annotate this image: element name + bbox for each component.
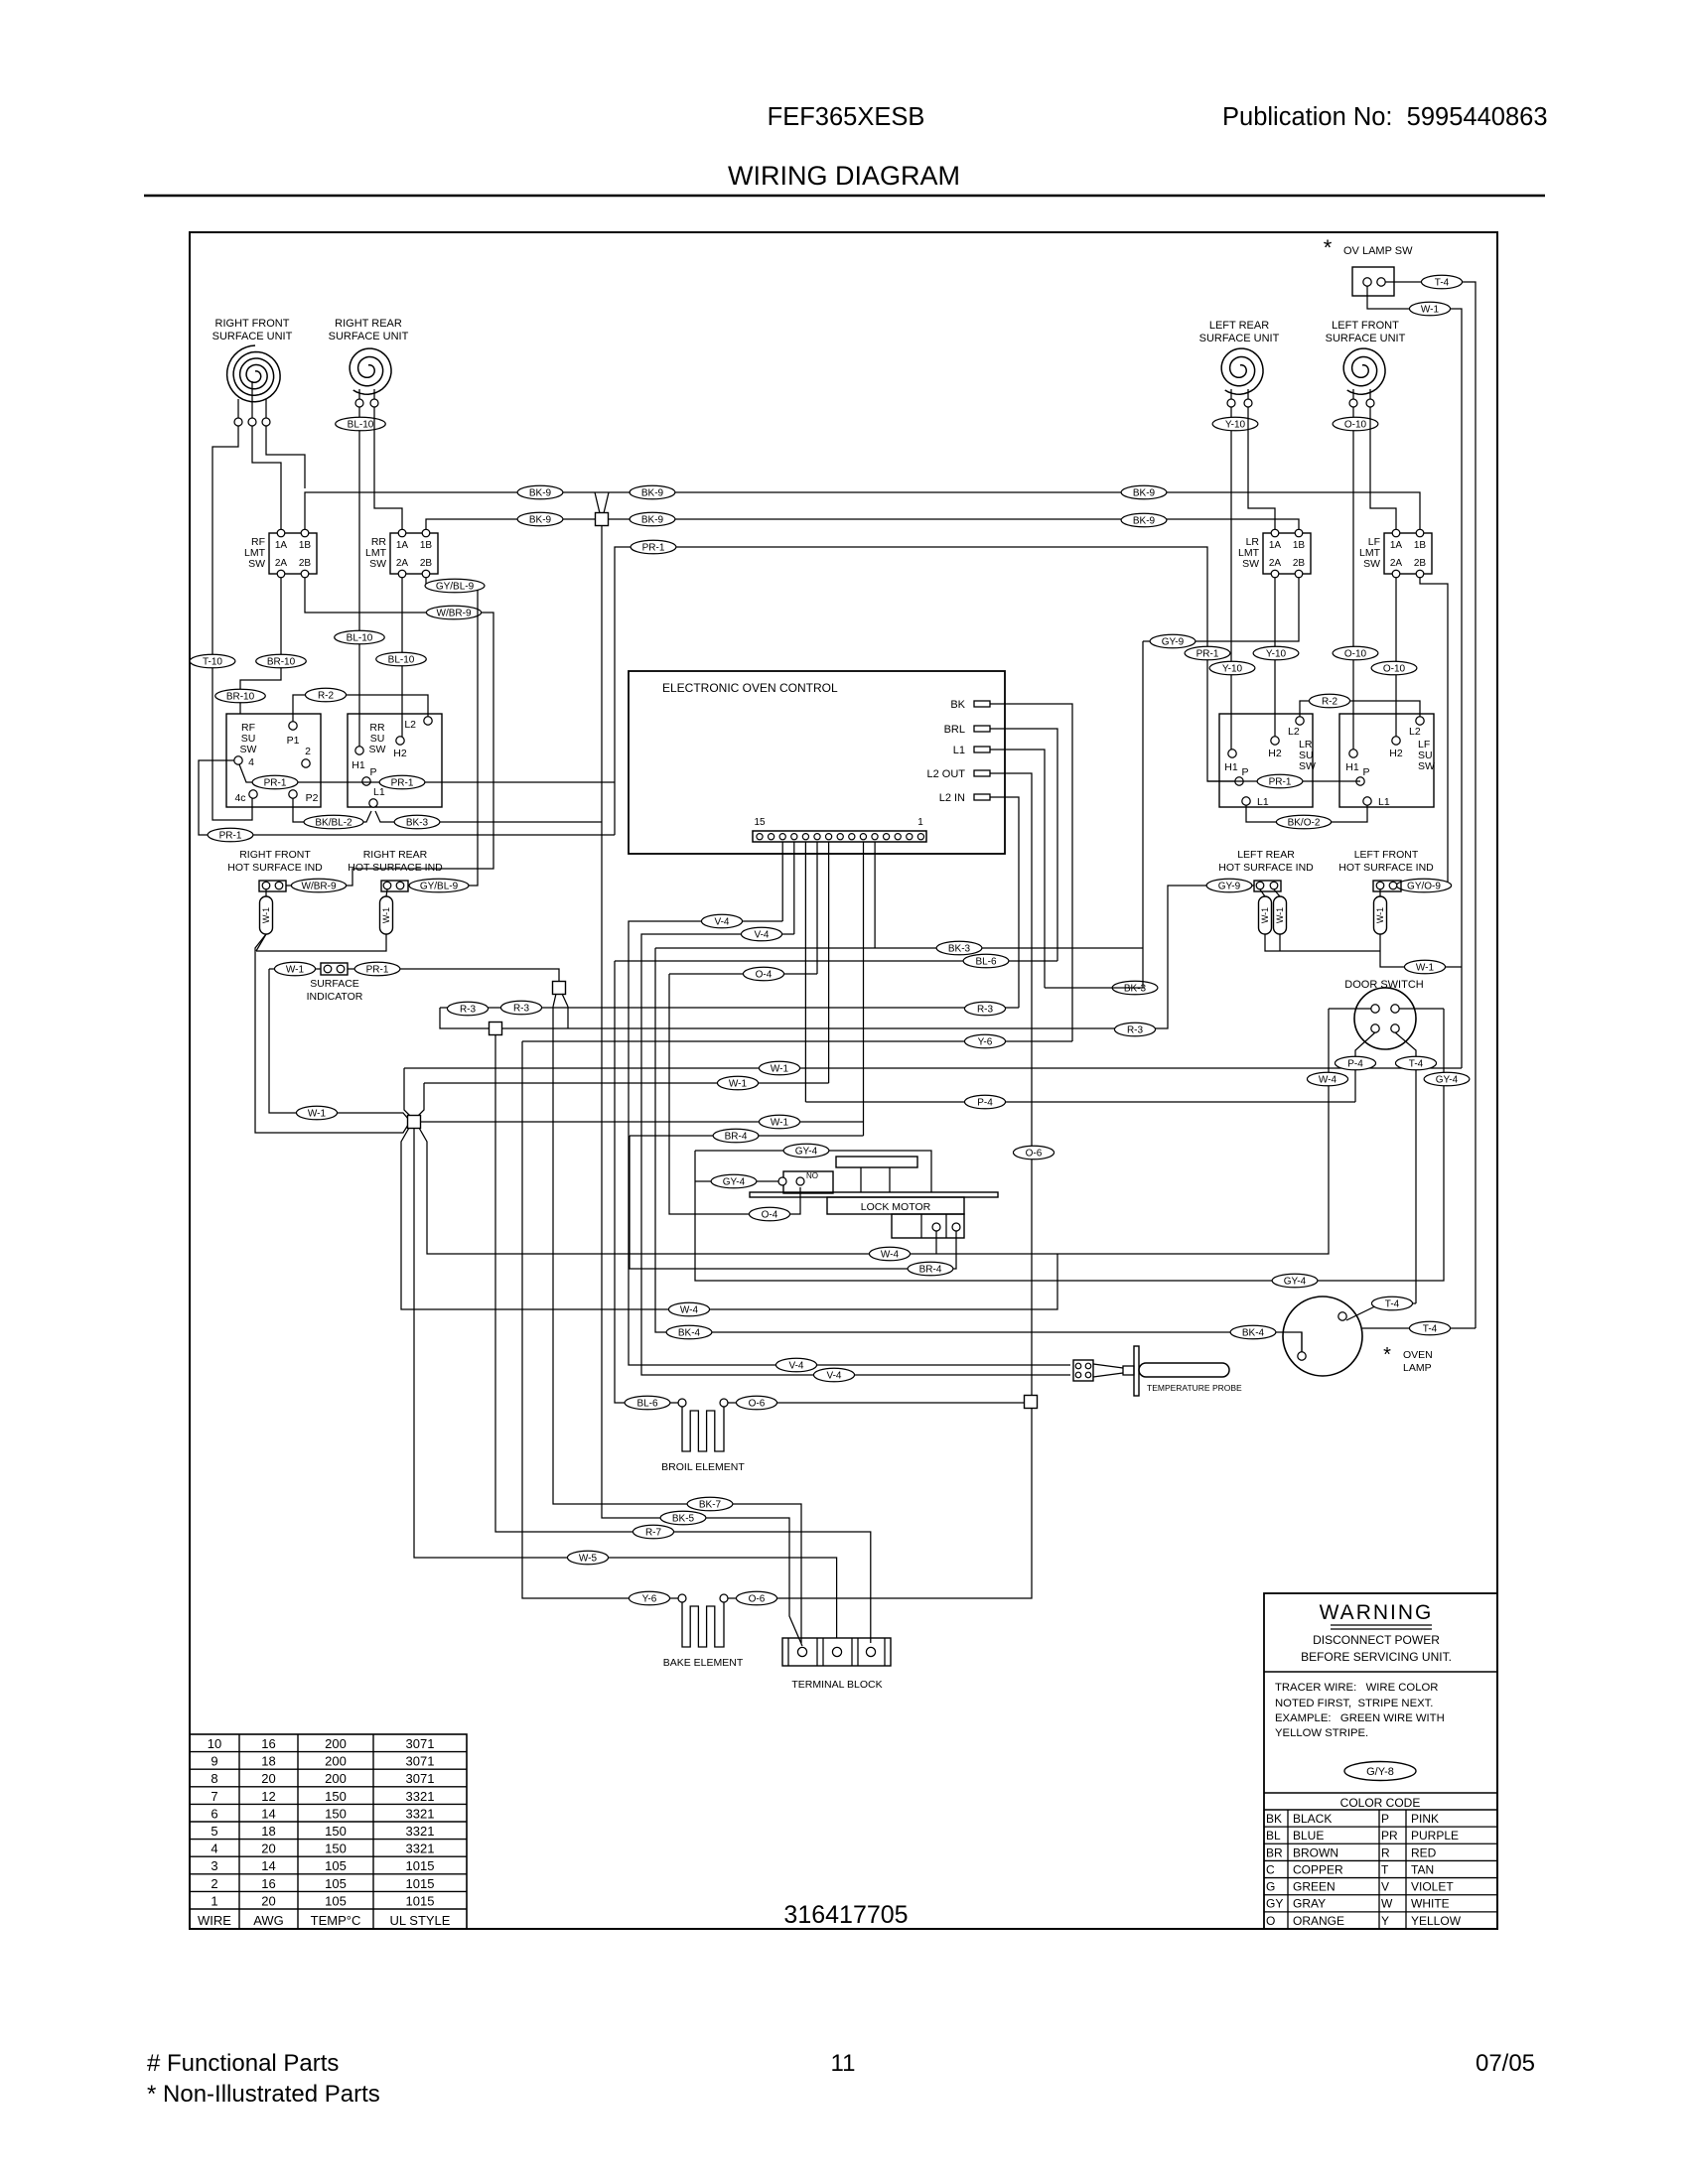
svg-text:BK-7: BK-7 (699, 1500, 722, 1511)
svg-text:LAMP: LAMP (1403, 1362, 1432, 1374)
svg-text:O-10: O-10 (1383, 664, 1406, 675)
wire from EOC connector pin x=788 (781, 842, 783, 921)
wire label Y-10 (1212, 417, 1258, 431)
date code (1476, 2050, 1535, 2077)
svg-text:AWG: AWG (253, 1913, 284, 1928)
svg-text:BK-9: BK-9 (529, 488, 552, 499)
svg-text:*: * (1324, 235, 1333, 260)
wire label W-1 (717, 1076, 758, 1090)
svg-text:INDICATOR: INDICATOR (307, 991, 363, 1003)
wire label BK-9 (630, 512, 675, 526)
wire BK-5 from BK-9 junction to terminal block (602, 526, 802, 1646)
svg-text:W-4: W-4 (680, 1305, 699, 1316)
LF surface switch box (1339, 714, 1435, 808)
svg-text:W-1: W-1 (1375, 907, 1385, 923)
svg-text:W-1: W-1 (1416, 963, 1435, 974)
wire PR-1 from pin 4 to P pins (239, 764, 615, 782)
wire label BK/BL-2 (304, 815, 363, 829)
wire W-1 capsule RF indicator (265, 889, 267, 896)
svg-text:V-4: V-4 (788, 1361, 803, 1372)
wire from RF capsule crossing to riser (255, 934, 408, 1133)
svg-text:L1: L1 (373, 786, 385, 798)
wire label GY-9 (1150, 634, 1196, 648)
wire label Y-6 (964, 1034, 1005, 1048)
wire leg from big junction to W-4 lock bus (419, 1009, 1329, 1254)
wire label O-6 (736, 1396, 776, 1410)
electronic oven control box (629, 671, 1005, 854)
svg-text:1A: 1A (1390, 540, 1403, 551)
wire label O-4 (743, 967, 783, 981)
wire label BK-9 (517, 512, 563, 526)
svg-text:5: 5 (211, 1824, 217, 1839)
svg-text:BR-10: BR-10 (267, 657, 296, 668)
wire W-1 capsules LR indicator (1260, 889, 1280, 896)
svg-text:7: 7 (211, 1789, 217, 1804)
svg-text:SURFACE: SURFACE (310, 978, 359, 990)
wire from BK pad to Y-6 bus (990, 704, 1072, 1041)
wire BK-9 bus upper (305, 492, 1420, 529)
svg-text:14: 14 (261, 1858, 275, 1873)
wire label T-4 (1409, 1321, 1450, 1335)
svg-text:P1: P1 (287, 735, 300, 747)
wire O-4 horizontal (669, 973, 817, 975)
svg-text:NOTED FIRST, STRIPE NEXT.: NOTED FIRST, STRIPE NEXT. (1275, 1698, 1433, 1709)
wire LR LMT 2A to H2 (Y-10) (1274, 578, 1276, 737)
svg-text:W-1: W-1 (1421, 305, 1440, 316)
svg-text:150: 150 (325, 1824, 347, 1839)
right rear hot surface indicator (348, 849, 443, 891)
svg-text:105: 105 (325, 1893, 347, 1908)
wire label Y-10 (1253, 646, 1299, 660)
svg-text:L2: L2 (1409, 726, 1421, 738)
svg-text:P-4: P-4 (1347, 1059, 1363, 1070)
svg-text:18: 18 (261, 1824, 275, 1839)
svg-text:1: 1 (917, 817, 923, 828)
svg-text:WIRE: WIRE (198, 1913, 231, 1928)
wire R-2 from P1 to RR L2 (293, 695, 428, 722)
svg-text:1015: 1015 (406, 1858, 435, 1873)
oven lamp label (1383, 1344, 1433, 1374)
svg-text:1015: 1015 (406, 1893, 435, 1908)
EOC pad BK (950, 699, 990, 711)
wire BK-9 bus lower (426, 519, 1299, 529)
svg-text:SURFACE UNIT: SURFACE UNIT (212, 331, 293, 342)
wire label W-5 (567, 1551, 608, 1565)
wire leg from big junction to W-4 lower bus (401, 1128, 1057, 1309)
svg-text:GY-4: GY-4 (795, 1147, 818, 1158)
svg-text:Y-6: Y-6 (978, 1037, 993, 1048)
svg-text:PR: PR (1381, 1829, 1398, 1843)
wire BR-4 horizontal (630, 1135, 864, 1137)
svg-text:H2: H2 (393, 748, 407, 759)
V tap from BK-9 upper bus into junction (595, 492, 609, 513)
svg-text:200: 200 (325, 1754, 347, 1769)
surface indicator assembly (307, 963, 363, 1003)
wire RF LMT 2A to RF SU SW (BR-10) (240, 578, 281, 714)
wire from EOC connector pin x=835 (828, 842, 830, 1083)
svg-text:W-1: W-1 (771, 1118, 789, 1129)
wire LR unit right terminal to LR LMT 1A (1248, 407, 1275, 529)
svg-text:BK-4: BK-4 (1242, 1328, 1265, 1339)
wire T-4 from lamp switch to right bus (1385, 282, 1476, 1328)
svg-text:16: 16 (261, 1736, 275, 1751)
wire label W/BR-9 (426, 606, 481, 619)
svg-text:V: V (1381, 1880, 1389, 1894)
wire T-4 from oven lamp to riser (1346, 1303, 1416, 1320)
wire BK-3 from RR L1 to center riser (375, 811, 602, 822)
wire label BR-4 (908, 1262, 953, 1276)
svg-text:Publication No: 5995440863: Publication No: 5995440863 (1222, 103, 1548, 131)
svg-text:RIGHT FRONT: RIGHT FRONT (239, 849, 311, 861)
svg-text:BR-10: BR-10 (226, 692, 255, 703)
wire BK/BL-2 from P2 to RR L1 (293, 798, 371, 822)
svg-text:TEMPERATURE PROBE: TEMPERATURE PROBE (1147, 1383, 1242, 1393)
svg-text:BL-6: BL-6 (975, 957, 997, 968)
svg-text:O-10: O-10 (1344, 649, 1367, 660)
svg-text:105: 105 (325, 1858, 347, 1873)
svg-text:3321: 3321 (406, 1824, 435, 1839)
wire label O-10 (1333, 646, 1378, 660)
svg-text:R-3: R-3 (513, 1004, 530, 1015)
wire T-4 from door switch bottom-right pin (1395, 1032, 1416, 1303)
wire GY-4 horizontal (695, 1151, 931, 1192)
svg-text:1B: 1B (299, 540, 312, 551)
svg-text:2B: 2B (420, 558, 433, 569)
svg-text:BAKE ELEMENT: BAKE ELEMENT (663, 1657, 744, 1669)
svg-text:GY-9: GY-9 (1218, 882, 1241, 892)
wire LF LMT 2B to GY/O-9 (1401, 578, 1448, 886)
svg-text:UL STYLE: UL STYLE (390, 1913, 451, 1928)
wire label P-4 (964, 1095, 1005, 1109)
wire label W-1 (759, 1115, 799, 1129)
RR surface switch box (348, 714, 442, 807)
svg-text:T-4: T-4 (1409, 1059, 1424, 1070)
svg-text:W-1: W-1 (1260, 907, 1270, 923)
svg-text:GREEN: GREEN (1293, 1880, 1336, 1894)
svg-text:EXAMPLE: GREEN WIRE WITH: EXAMPLE: GREEN WIRE WITH (1275, 1712, 1445, 1724)
svg-text:BR: BR (1266, 1845, 1283, 1859)
svg-text:BK/O-2: BK/O-2 (1288, 818, 1321, 829)
svg-text:BK-3: BK-3 (406, 818, 429, 829)
wire label R-3 (447, 1002, 488, 1016)
left front hot surface indicator (1338, 849, 1434, 891)
svg-text:6: 6 (211, 1806, 217, 1821)
svg-text:L2 OUT: L2 OUT (926, 768, 965, 780)
svg-text:L1: L1 (953, 745, 965, 756)
svg-text:3321: 3321 (406, 1789, 435, 1804)
wire O-4 riser to lock switch (669, 974, 800, 1214)
svg-text:PR-1: PR-1 (642, 543, 665, 554)
junction square O-6 (1025, 1396, 1038, 1409)
svg-text:NO: NO (806, 1171, 818, 1180)
wire BL-6 riser to broil element (615, 961, 678, 1403)
svg-text:LEFT REAR: LEFT REAR (1209, 320, 1269, 332)
wire label BK-9 (1121, 485, 1167, 499)
svg-text:# Functional Parts: # Functional Parts (147, 2050, 339, 2077)
wire joining capsules (256, 934, 386, 951)
svg-text:LOCK MOTOR: LOCK MOTOR (861, 1201, 931, 1213)
wire label GY-4 (711, 1174, 757, 1188)
svg-text:G: G (1266, 1880, 1275, 1894)
svg-text:GY-4: GY-4 (1436, 1075, 1459, 1086)
svg-text:V-4: V-4 (754, 930, 769, 941)
svg-text:SW: SW (240, 744, 257, 755)
svg-text:RIGHT REAR: RIGHT REAR (363, 849, 428, 861)
svg-text:R-3: R-3 (1127, 1025, 1144, 1036)
svg-text:*: * (1383, 1344, 1391, 1366)
wire label BK-3 (1112, 981, 1158, 995)
bake element (663, 1594, 744, 1669)
svg-text:ORANGE: ORANGE (1293, 1914, 1344, 1928)
svg-text:O-6: O-6 (1026, 1149, 1043, 1160)
EOC pad L2 OUT (926, 768, 990, 780)
svg-text:2A: 2A (1269, 558, 1282, 569)
wire W-1 second into junction top (417, 1083, 424, 1117)
svg-text:14: 14 (261, 1806, 275, 1821)
junction square center (553, 982, 566, 995)
svg-text:W/BR-9: W/BR-9 (437, 609, 472, 619)
svg-text:T: T (1381, 1862, 1389, 1876)
svg-text:4c: 4c (234, 792, 245, 804)
svg-text:R-3: R-3 (977, 1005, 994, 1016)
svg-text:* Non-Illustrated Parts: * Non-Illustrated Parts (147, 2081, 380, 2108)
svg-text:WHITE: WHITE (1411, 1897, 1450, 1911)
wire label GY/O-9 (1396, 879, 1451, 892)
wire from EOC connector pin x=870 (863, 842, 865, 1136)
wire label W-1 (759, 1061, 799, 1075)
svg-text:COLOR CODE: COLOR CODE (1340, 1796, 1421, 1810)
wire W-1 junction right horizontal (421, 1121, 864, 1123)
svg-text:1B: 1B (1414, 540, 1427, 551)
svg-text:OVEN: OVEN (1403, 1349, 1433, 1361)
wire label T-4 (1395, 1056, 1436, 1070)
svg-text:BROWN: BROWN (1293, 1845, 1338, 1859)
svg-text:SW: SW (369, 744, 386, 755)
wire W-4 door switch top-left pin (1329, 1008, 1371, 1010)
svg-text:P: P (369, 766, 376, 778)
svg-text:W-4: W-4 (1319, 1075, 1337, 1086)
svg-text:SURFACE UNIT: SURFACE UNIT (1199, 333, 1280, 344)
wire LF LMT 2A to H2 (O-10) (1395, 578, 1397, 737)
lock motor assembly (750, 1157, 998, 1238)
svg-text:SW: SW (1242, 558, 1259, 570)
svg-text:H2: H2 (1268, 748, 1282, 759)
svg-text:P-4: P-4 (977, 1098, 993, 1109)
wire label R-7 (633, 1525, 673, 1539)
wire T-4 lower from lamp to right riser (1362, 1327, 1476, 1329)
svg-text:W-1: W-1 (286, 965, 305, 976)
wire label T-4 (1421, 275, 1462, 289)
wire V legs below center junction (553, 994, 568, 1028)
svg-text:1: 1 (211, 1893, 217, 1908)
svg-text:1A: 1A (396, 540, 409, 551)
wire label BK-4 (666, 1325, 712, 1339)
door switch (1344, 979, 1423, 1049)
wire label R-2 (305, 688, 346, 702)
right rear surface unit coil (329, 318, 409, 407)
junction square R-3 (490, 1023, 502, 1035)
wire label O-6 (1013, 1146, 1054, 1160)
svg-text:RIGHT FRONT: RIGHT FRONT (215, 318, 290, 330)
svg-text:O-4: O-4 (762, 1210, 778, 1221)
svg-text:3: 3 (211, 1858, 217, 1873)
svg-text:BK-9: BK-9 (641, 488, 664, 499)
svg-text:LEFT REAR: LEFT REAR (1237, 849, 1295, 861)
wire leg from big junction to W-5 (414, 1128, 837, 1638)
wire label PR-1 (631, 540, 676, 554)
svg-text:SURFACE UNIT: SURFACE UNIT (329, 331, 409, 342)
wire label PR-1 (1257, 774, 1303, 788)
svg-text:H1: H1 (352, 759, 365, 771)
svg-text:SW: SW (248, 558, 265, 570)
wire W-1 riser to big junction (269, 969, 408, 1119)
svg-text:VIOLET: VIOLET (1411, 1880, 1454, 1894)
svg-text:BLUE: BLUE (1293, 1829, 1324, 1843)
svg-text:BK-9: BK-9 (1133, 488, 1156, 499)
svg-text:SW: SW (1418, 760, 1435, 772)
wire label BL-10 (336, 417, 386, 431)
wire W-1 capsule RR indicator (386, 889, 387, 896)
wire W-1 to surface indicator (269, 968, 321, 970)
wire label V-4 (813, 1368, 854, 1382)
svg-text:PINK: PINK (1411, 1812, 1439, 1826)
wire LF unit right terminal to LF LMT 1A (1370, 407, 1396, 529)
svg-text:L2 IN: L2 IN (939, 792, 965, 804)
svg-text:WIRING DIAGRAM: WIRING DIAGRAM (728, 161, 960, 191)
svg-text:R-2: R-2 (1322, 697, 1338, 708)
svg-text:PR-1: PR-1 (1196, 649, 1219, 660)
wire label R-2 (1309, 694, 1349, 708)
wire label W/BR-9 (291, 879, 346, 892)
wire gauge table (190, 1734, 467, 1929)
wire V-4 upper run b from EOC pin (641, 934, 1070, 1375)
color code table (1264, 1810, 1497, 1929)
svg-text:W: W (1381, 1897, 1393, 1911)
svg-text:200: 200 (325, 1736, 347, 1751)
page title WIRING DIAGRAM (728, 161, 960, 191)
svg-text:3071: 3071 (406, 1771, 435, 1786)
wire PR-1 from surface indicator to junction (348, 969, 559, 982)
svg-text:PR-1: PR-1 (391, 778, 414, 789)
wire label PR-1 (379, 775, 425, 789)
svg-text:W-1: W-1 (1275, 907, 1285, 923)
svg-text:18: 18 (261, 1754, 275, 1769)
svg-text:BL-10: BL-10 (348, 420, 374, 431)
wire LF unit left terminal to H1 (O-10) (1352, 407, 1354, 750)
svg-text:2B: 2B (1414, 558, 1427, 569)
svg-text:L2: L2 (1288, 726, 1300, 738)
wire label GY-4 (1424, 1072, 1470, 1086)
wire label BL-10 (335, 630, 385, 644)
svg-text:W-1: W-1 (381, 907, 391, 923)
svg-text:H2: H2 (1389, 748, 1403, 759)
svg-text:2A: 2A (396, 558, 409, 569)
svg-text:BRL: BRL (944, 724, 965, 736)
right front surface unit coil (212, 318, 293, 426)
model number title (768, 103, 925, 131)
big junction square (408, 1116, 421, 1129)
wire label BK-3 (394, 815, 440, 829)
left front surface unit coil (1326, 320, 1406, 407)
wire label O-10 (1371, 661, 1417, 675)
svg-text:3321: 3321 (406, 1806, 435, 1821)
svg-text:BK-9: BK-9 (1133, 516, 1156, 527)
svg-text:BK: BK (1266, 1812, 1282, 1826)
wire R-3 horizontal (440, 1007, 1019, 1009)
wire GY-4 stub to lock switch (695, 1180, 778, 1182)
wire BK-4 into lamp (1301, 1332, 1303, 1352)
svg-text:TEMP°C: TEMP°C (311, 1913, 361, 1928)
svg-text:3071: 3071 (406, 1754, 435, 1769)
svg-text:R: R (1381, 1845, 1390, 1859)
svg-text:20: 20 (261, 1893, 275, 1908)
svg-text:O-6: O-6 (749, 1399, 766, 1410)
temperature probe (1073, 1346, 1242, 1396)
wire from EOC connector pin x=811 (804, 842, 806, 1102)
wire label W-1 (274, 962, 315, 976)
wire RF LMT 2B to RF hot surface ind (W/BR-9) (286, 578, 493, 886)
wire label PR-1 (208, 828, 253, 842)
wire BK/O-2 from LR L1 to LF L1 (1246, 805, 1367, 822)
wire label BK-7 (687, 1497, 733, 1511)
svg-text:YELLOW: YELLOW (1411, 1914, 1462, 1928)
wire joining left capsules (1265, 934, 1380, 951)
svg-text:T-4: T-4 (1435, 278, 1450, 289)
wire R-2 from LR L2 to LF L2 (1300, 701, 1420, 717)
wire label O-4 (749, 1207, 789, 1221)
svg-text:BEFORE SERVICING UNIT.: BEFORE SERVICING UNIT. (1301, 1650, 1452, 1664)
lock motor NO switch (778, 1171, 833, 1193)
svg-text:1B: 1B (1293, 540, 1306, 551)
svg-text:W-4: W-4 (881, 1250, 900, 1261)
svg-text:T-10: T-10 (203, 657, 222, 668)
wire W-1 horizontal long (404, 1067, 1462, 1069)
svg-text:HOT SURFACE IND: HOT SURFACE IND (227, 862, 323, 874)
wire W-1 second horizontal (424, 1082, 829, 1084)
RF limit switch (244, 529, 317, 578)
junction square BK-9 (596, 513, 609, 526)
wire W-1 capsule LF indicator (1379, 889, 1381, 896)
wire label PR-1 (252, 775, 298, 789)
footer functional parts note (147, 2050, 339, 2077)
wire GY-4 riser to door switch run (695, 1009, 1444, 1281)
svg-text:SW: SW (1363, 558, 1380, 570)
svg-text:TRACER WIRE: WIRE COLOR: TRACER WIRE: WIRE COLOR (1275, 1682, 1438, 1694)
wire V-4 upper run a from EOC pin (629, 921, 1070, 1365)
svg-text:HOT SURFACE IND: HOT SURFACE IND (1218, 862, 1314, 874)
wire BK-3 right segment (1045, 641, 1143, 988)
svg-text:SW: SW (369, 558, 386, 570)
wire PR-1 bus from EOC area to left surface switches (615, 547, 1235, 835)
svg-text:BK-4: BK-4 (678, 1328, 701, 1339)
wire label W-4 (1307, 1072, 1347, 1086)
wire label BL-6 (963, 954, 1009, 968)
svg-text:150: 150 (325, 1806, 347, 1821)
wire label R-3 (500, 1001, 541, 1015)
svg-text:3321: 3321 (406, 1842, 435, 1856)
wire label GY-9 (1206, 879, 1252, 892)
wire label BK-9 (1121, 513, 1167, 527)
svg-text:H1: H1 (1224, 761, 1238, 773)
svg-text:C: C (1266, 1862, 1275, 1876)
part number (783, 1901, 908, 1929)
svg-text:GY-9: GY-9 (1162, 637, 1185, 648)
wire R-3 to right riser (502, 886, 1254, 1028)
svg-text:RED: RED (1411, 1845, 1437, 1859)
wire GY-4 door switch top-right pin (1399, 1008, 1444, 1010)
svg-text:BL: BL (1266, 1829, 1281, 1843)
wire label V-4 (775, 1358, 816, 1372)
